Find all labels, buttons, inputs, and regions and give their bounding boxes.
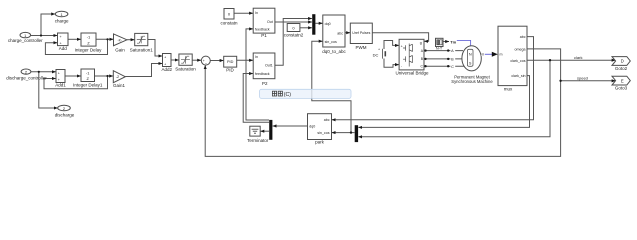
svg-text:discharge_controller: discharge_controller: [6, 75, 47, 80]
svg-text:+: +: [60, 35, 62, 39]
svg-text:constatn2: constatn2: [284, 32, 304, 37]
svg-text:charge_controller: charge_controller: [8, 38, 43, 43]
svg-text:PID: PID: [227, 60, 234, 64]
svg-text:+: +: [401, 44, 403, 48]
svg-text:m: m: [500, 52, 503, 56]
svg-text:-2: -2: [116, 75, 119, 79]
svg-text:mux: mux: [504, 86, 513, 91]
svg-text:E: E: [621, 78, 624, 83]
svg-text:Tm: Tm: [450, 39, 456, 44]
svg-text:clark: clark: [574, 55, 582, 60]
svg-text:Out1: Out1: [265, 64, 273, 68]
svg-text:+: +: [58, 78, 60, 82]
svg-text:Out: Out: [267, 20, 273, 24]
svg-text:speed: speed: [577, 76, 588, 81]
svg-text:+: +: [60, 41, 62, 45]
svg-text:abc: abc: [324, 118, 330, 122]
svg-text:Integer Delay: Integer Delay: [75, 47, 103, 52]
svg-text:Saturation1: Saturation1: [130, 47, 154, 52]
svg-text:Universal Bridge: Universal Bridge: [395, 71, 429, 76]
svg-text:+: +: [58, 72, 60, 76]
svg-text:Uref Pulses: Uref Pulses: [352, 31, 370, 35]
svg-text:A: A: [451, 49, 454, 53]
svg-text:DC: DC: [373, 52, 379, 57]
svg-text:clark_sin: clark_sin: [511, 74, 525, 78]
svg-text:park: park: [315, 140, 325, 145]
svg-text:B: B: [451, 58, 454, 62]
svg-text:Integer Delay1: Integer Delay1: [73, 83, 103, 88]
svg-text:Add2: Add2: [161, 67, 172, 72]
svg-text:PID: PID: [226, 68, 234, 73]
svg-text:m: m: [481, 52, 484, 56]
svg-text:dq0_to_abc: dq0_to_abc: [322, 49, 346, 54]
svg-text:abc: abc: [337, 31, 343, 35]
svg-text:D: D: [621, 59, 624, 64]
svg-text:PWM: PWM: [356, 45, 367, 50]
svg-text:P1: P1: [261, 33, 267, 38]
svg-text:C: C: [451, 65, 454, 69]
svg-text:Terminator: Terminator: [247, 138, 269, 143]
svg-text:sin_cos: sin_cos: [325, 40, 337, 44]
svg-text:S: S: [469, 61, 472, 65]
svg-text:Synchronous Machine: Synchronous Machine: [451, 79, 493, 84]
svg-text:abc: abc: [520, 35, 526, 39]
svg-text:omega: omega: [515, 48, 526, 52]
svg-text:+: +: [378, 47, 380, 51]
svg-text:In: In: [255, 55, 258, 59]
svg-text:feedback: feedback: [255, 72, 270, 76]
svg-text:constatn: constatn: [220, 21, 238, 26]
svg-text:Gain1: Gain1: [113, 83, 126, 88]
svg-text:g: g: [420, 41, 422, 45]
svg-text:charge: charge: [55, 19, 69, 24]
svg-text:discharge: discharge: [55, 113, 75, 118]
svg-text:clark_cos: clark_cos: [510, 59, 525, 63]
svg-text:dq0: dq0: [309, 124, 315, 128]
svg-text:sin_cos: sin_cos: [317, 131, 329, 135]
svg-text:+: +: [164, 62, 166, 66]
svg-text:Saturation: Saturation: [175, 67, 196, 72]
svg-text:Goto2: Goto2: [615, 66, 628, 71]
svg-text:(C): (C): [284, 92, 291, 98]
svg-text:Add: Add: [59, 46, 68, 51]
svg-text:In: In: [255, 11, 258, 15]
svg-text:feedback: feedback: [255, 27, 270, 31]
svg-text:P2: P2: [262, 81, 268, 86]
svg-text:Goto3: Goto3: [615, 86, 628, 91]
svg-text:Gain: Gain: [115, 47, 125, 52]
svg-text:N: N: [469, 52, 472, 56]
svg-text:Add1: Add1: [55, 83, 66, 88]
svg-text:+: +: [164, 56, 166, 60]
svg-text:dq0: dq0: [325, 22, 331, 26]
svg-text:N-T: N-T: [436, 47, 443, 51]
svg-text:-K-: -K-: [118, 38, 123, 42]
